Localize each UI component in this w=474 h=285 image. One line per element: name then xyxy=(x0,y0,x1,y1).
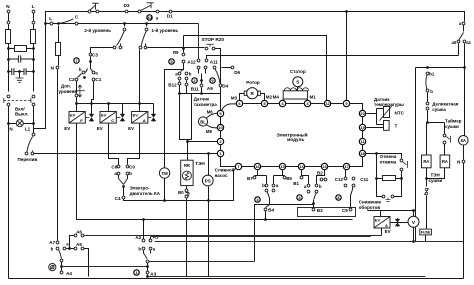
junction B4 bus xyxy=(264,218,267,221)
terminal C3 xyxy=(89,53,92,56)
terminal B7 xyxy=(253,176,256,179)
svg-text:18: 18 xyxy=(360,151,365,156)
svg-text:A1: A1 xyxy=(153,235,159,240)
mechanical link dashed xyxy=(4,99,32,101)
contact group 8 xyxy=(336,195,341,200)
wire 16 hanger xyxy=(255,170,267,184)
terminal C11 pin2 xyxy=(352,184,355,187)
svg-text:N: N xyxy=(457,159,460,164)
svg-text:сушки: сушки xyxy=(445,124,459,129)
terminal C9 xyxy=(349,208,352,211)
taymer actuator xyxy=(446,136,450,143)
wire A5 right down xyxy=(84,249,89,277)
wire fuse to bus xyxy=(413,235,426,242)
terminal C1 xyxy=(92,78,95,81)
junction level1 xyxy=(145,22,148,25)
terminal A4 xyxy=(60,271,63,274)
node 10 xyxy=(217,124,223,130)
node 16 xyxy=(254,163,260,169)
wire N to lamp row xyxy=(8,106,10,124)
terminal A2 xyxy=(142,239,145,242)
junction capY left xyxy=(7,70,10,73)
resistor snizhenie xyxy=(383,176,396,181)
wire 9-10 xyxy=(220,117,222,126)
wire A9 col upper xyxy=(201,74,203,80)
wire A4 to A3 xyxy=(62,266,148,268)
svg-text:19: 19 xyxy=(360,125,365,130)
wire 15 hanger xyxy=(274,170,285,184)
wire overflow to node1 xyxy=(34,153,218,155)
tick a A1 xyxy=(150,251,152,254)
terminal dop b xyxy=(82,71,85,74)
junction A3 xyxy=(146,265,149,268)
terminal a1 xyxy=(463,40,466,43)
svg-text:10: 10 xyxy=(218,125,223,130)
wire bus to EV C xyxy=(108,104,110,112)
wire A1 join xyxy=(370,236,372,237)
svg-text:A2: A2 xyxy=(135,235,141,240)
wire 16-15 xyxy=(261,166,280,168)
wire pump return down xyxy=(208,201,210,277)
svg-text:b: b xyxy=(79,67,82,72)
wire A12 column upper xyxy=(183,36,185,53)
wire EVC to C6 xyxy=(109,124,119,165)
svg-text:b: b xyxy=(319,184,322,189)
svg-text:b: b xyxy=(189,71,192,76)
terminal C12 pin2 xyxy=(344,184,347,187)
junction A2 feed xyxy=(142,218,145,221)
svg-text:B12: B12 xyxy=(168,83,177,88)
wire L drop b xyxy=(33,25,35,30)
node 5 xyxy=(261,100,267,106)
wire L1 down xyxy=(33,106,35,134)
svg-text:A: A xyxy=(385,223,388,228)
junction A9 col xyxy=(200,79,203,82)
tick overflow no xyxy=(32,151,34,152)
wire left frame to L1 xyxy=(34,24,46,129)
wire KA column xyxy=(57,70,59,241)
wire resistor right xyxy=(396,178,402,180)
svg-text:A4: A4 xyxy=(66,271,72,276)
lever C2 up xyxy=(78,74,82,78)
switch lever main xyxy=(141,6,151,11)
wire 6-5 xyxy=(244,103,262,105)
terminal B2 pin2 xyxy=(324,178,327,181)
junction EV3 xyxy=(138,102,141,105)
terminal ka a xyxy=(117,172,120,175)
wire lamp left xyxy=(9,123,17,125)
svg-text:13: 13 xyxy=(322,164,327,169)
junction lamp left xyxy=(7,122,10,125)
svg-text:Датчик: Датчик xyxy=(194,97,210,102)
svg-text:A3: A3 xyxy=(150,271,156,276)
svg-text:a1: a1 xyxy=(466,40,471,45)
junction pump return xyxy=(207,199,210,202)
wire to RA1 xyxy=(426,123,428,156)
junction filter left xyxy=(7,47,10,50)
wire resistor left xyxy=(377,178,383,180)
wire taymer drop xyxy=(444,123,446,134)
solenoid valve EV F xyxy=(69,112,85,124)
bus return mid xyxy=(149,276,426,278)
wire bus to pin mid xyxy=(198,24,200,59)
wire level1a to EV bus xyxy=(139,50,141,104)
stator S xyxy=(293,77,303,87)
wire filter left rail xyxy=(8,44,10,92)
terminal C6 xyxy=(117,165,120,168)
terminal A2 b xyxy=(142,247,145,250)
junction block left xyxy=(178,92,181,95)
junction A3 bus xyxy=(146,275,149,278)
terminal b xyxy=(426,89,429,92)
terminal door sw right xyxy=(96,10,99,13)
connector pin N xyxy=(7,21,10,24)
wire C1 to valve xyxy=(92,81,94,104)
junction block mid xyxy=(200,92,203,95)
wire A3u right xyxy=(149,261,255,263)
wire A9 down xyxy=(201,88,203,94)
svg-text:14: 14 xyxy=(299,164,304,169)
svg-text:BL: BL xyxy=(200,119,206,124)
svg-text:a0: a0 xyxy=(452,40,457,45)
wire S to winding xyxy=(297,87,299,91)
switch STOP R20 xyxy=(202,37,225,47)
svg-text:отжима: отжима xyxy=(380,160,397,165)
svg-text:2-й уровень: 2-й уровень xyxy=(84,27,111,33)
connector D3 pin a xyxy=(125,10,128,13)
svg-text:EV: EV xyxy=(70,113,76,118)
svg-text:RR: RR xyxy=(184,163,190,168)
wire stator to 3 xyxy=(307,100,309,101)
node 9 right xyxy=(343,100,349,106)
svg-text:b: b xyxy=(430,89,433,94)
terminal D6 xyxy=(231,66,234,69)
wire level2a to C3 xyxy=(91,48,114,54)
terminal stop left xyxy=(205,47,208,50)
svg-text:b: b xyxy=(129,171,132,176)
svg-text:STOP R20: STOP R20 xyxy=(202,37,225,42)
svg-text:PS: PS xyxy=(205,179,211,184)
contact group 4 xyxy=(297,195,302,200)
wire 10-2 xyxy=(220,131,222,139)
wire to A2 xyxy=(143,220,145,240)
junction capX left xyxy=(7,58,10,61)
wire to node 12 xyxy=(184,36,327,102)
svg-text:L: L xyxy=(49,16,52,21)
stub A9 up xyxy=(201,82,203,85)
svg-text:15: 15 xyxy=(280,164,285,169)
node 20 xyxy=(359,110,365,116)
resistor KA feed xyxy=(56,43,61,56)
wire A1 stub xyxy=(150,237,152,240)
stub A3 to bus xyxy=(147,275,149,277)
connector A12 pin b xyxy=(182,60,185,63)
wire to C4 xyxy=(123,187,125,196)
terminal delikat top xyxy=(426,102,429,105)
wire C2 to EV bus xyxy=(76,97,78,104)
wire to cutout xyxy=(426,179,428,187)
lever level2 curve xyxy=(117,31,125,45)
resistor RA 2 xyxy=(440,155,450,168)
terminal row2 p3 xyxy=(213,66,216,69)
node 9 xyxy=(217,110,223,116)
svg-text:b: b xyxy=(138,247,141,252)
junction L frame xyxy=(44,22,47,25)
terminal a pin1 xyxy=(178,72,181,75)
connector D3 pin b xyxy=(138,10,141,13)
svg-text:C9: C9 xyxy=(342,208,348,213)
wire N drop a xyxy=(8,13,10,22)
wire sensor bracket xyxy=(377,109,384,125)
node 4 xyxy=(279,100,285,106)
svg-text:EV: EV xyxy=(133,113,139,118)
terminal N input xyxy=(7,10,10,13)
tail ka b xyxy=(127,175,129,179)
terminal otmena top xyxy=(400,159,403,162)
wire resistor to N pin xyxy=(58,56,60,66)
valve symbol C xyxy=(117,113,125,121)
junction filter right xyxy=(32,47,35,50)
terminal taymer top xyxy=(443,134,446,137)
resistor RA 1 xyxy=(422,155,432,168)
wire 9 to 20 xyxy=(350,104,363,111)
svg-text:Электро-: Электро- xyxy=(130,186,150,191)
terminal A1 a xyxy=(149,247,152,250)
capacitor Y right xyxy=(20,68,34,75)
svg-text:A5: A5 xyxy=(76,242,82,247)
wire BL to 10 xyxy=(206,125,217,128)
terminal A9 xyxy=(200,84,203,87)
terminal B4 xyxy=(264,208,267,211)
junction C3 xyxy=(89,60,92,63)
junction resistor left xyxy=(375,177,378,180)
terminal b13 xyxy=(315,184,318,187)
wire 9 to module bus xyxy=(222,104,237,111)
terminal switch R bottom xyxy=(32,103,35,106)
svg-text:L1: L1 xyxy=(25,127,31,132)
contact group 7 xyxy=(74,58,79,63)
node 3 xyxy=(304,100,310,106)
wire L drop a xyxy=(33,13,35,22)
svg-text:A9: A9 xyxy=(207,86,213,91)
wire to D6 xyxy=(222,67,232,69)
wire 18 branch xyxy=(366,154,402,159)
switch lever C xyxy=(60,19,73,23)
svg-text:A7: A7 xyxy=(49,240,55,245)
terminal a0 xyxy=(457,40,460,43)
wire V down xyxy=(413,228,415,242)
wire N drop b xyxy=(8,25,10,30)
inductor filter right xyxy=(31,30,36,44)
svg-text:C: C xyxy=(111,118,114,123)
wire heater return xyxy=(186,199,188,277)
junction level2 xyxy=(123,22,126,25)
svg-text:Перелив: Перелив xyxy=(18,157,38,162)
buzzer symbol xyxy=(49,264,56,271)
terminal b pin2 xyxy=(185,77,188,80)
lever ka b xyxy=(124,179,128,185)
ground snizhenie xyxy=(385,198,390,202)
svg-text:Доп.: Доп. xyxy=(61,84,71,89)
svg-text:b: b xyxy=(262,183,265,188)
wire to C9 xyxy=(350,196,352,208)
terminal b13 pin2 xyxy=(315,190,318,193)
terminal switch L bottom xyxy=(7,103,10,106)
terminal overflow common xyxy=(32,133,35,136)
terminal taymer bottom xyxy=(443,141,446,144)
contact group 1 xyxy=(134,270,139,275)
junction delikat col xyxy=(426,121,429,124)
terminal sw main out xyxy=(156,10,159,13)
terminal switch R top xyxy=(32,95,35,98)
svg-text:C1: C1 xyxy=(95,77,101,82)
heater RR TEN xyxy=(181,160,193,185)
wire b down xyxy=(427,93,429,102)
wire 5-4 xyxy=(268,103,280,105)
lever ka a xyxy=(119,179,124,185)
junction a bottom xyxy=(68,247,71,250)
svg-text:уровень: уровень xyxy=(59,89,78,94)
wire stator to 4 xyxy=(283,100,284,101)
svg-text:D4: D4 xyxy=(222,84,228,89)
svg-text:сушка: сушка xyxy=(432,107,446,112)
terminal level2 common xyxy=(123,28,126,31)
terminal B12 xyxy=(178,82,181,85)
switch bar main xyxy=(147,3,154,8)
tail row2 p2 xyxy=(205,69,207,74)
lever b8 xyxy=(350,187,353,196)
svg-text:B3: B3 xyxy=(317,208,323,213)
svg-text:EV: EV xyxy=(128,126,134,131)
connector A12 pin a xyxy=(182,53,185,56)
wire lamp right xyxy=(24,123,34,125)
solenoid valve EV A xyxy=(132,112,148,124)
svg-text:EV: EV xyxy=(64,126,70,131)
svg-text:Ротор: Ротор xyxy=(246,80,260,85)
svg-text:C2: C2 xyxy=(69,77,75,82)
junction capY right xyxy=(32,70,35,73)
terminal otmena bottom xyxy=(400,168,403,171)
wire rotor to 5 xyxy=(261,94,265,101)
wire D4 down xyxy=(220,87,222,94)
wire C4 bus to node7 xyxy=(124,169,236,201)
svg-text:C3: C3 xyxy=(92,53,98,58)
svg-text:B4: B4 xyxy=(268,208,274,213)
junction A12 top xyxy=(182,47,185,50)
node 7 xyxy=(235,163,241,169)
terminal level2 b xyxy=(119,46,122,49)
wire valve F up xyxy=(91,104,93,114)
svg-text:B1: B1 xyxy=(293,181,299,186)
wire sn left xyxy=(377,179,383,197)
junction valve1 xyxy=(90,102,93,105)
thermal cutout drying xyxy=(424,188,429,194)
wire 14-13 xyxy=(305,166,322,168)
tail ka a xyxy=(118,175,120,179)
wire N right rail xyxy=(463,163,465,279)
wire cutout down xyxy=(426,196,428,230)
voltmeter V xyxy=(408,216,419,227)
svg-text:b: b xyxy=(51,247,54,252)
terminal ka b xyxy=(126,172,129,175)
wire taymer to RA2 xyxy=(444,144,446,156)
capacitor X across line xyxy=(8,55,33,62)
lever row2 to D4 xyxy=(215,69,220,84)
terminal a C1 xyxy=(92,71,95,74)
wire V up xyxy=(413,211,415,217)
svg-text:ТМ: ТМ xyxy=(161,171,168,176)
terminal D4 xyxy=(219,84,222,87)
tach sensor BL xyxy=(198,117,207,126)
switch overflow lever xyxy=(27,136,33,152)
terminal A4 upper xyxy=(60,259,63,262)
svg-text:B2: B2 xyxy=(317,170,323,175)
connector A11 pin xyxy=(205,59,208,62)
svg-text:FUSE: FUSE xyxy=(421,231,431,235)
wire level1 to stop xyxy=(148,47,205,49)
terminal delikat bottom xyxy=(426,107,429,110)
svg-text:Сливной: Сливной xyxy=(215,166,235,172)
wire stop to tach column xyxy=(215,49,221,111)
junction resistor branch xyxy=(57,22,60,25)
wire right rail to KA xyxy=(464,68,466,137)
svg-text:ТЭН: ТЭН xyxy=(195,161,205,166)
wire rotor to 6 xyxy=(240,94,245,101)
svg-text:EV: EV xyxy=(375,218,381,223)
svg-text:RA: RA xyxy=(442,159,448,164)
junction top to node9 xyxy=(345,10,348,13)
wire drying bus xyxy=(416,67,465,69)
svg-text:A11: A11 xyxy=(210,59,219,64)
wire 15-14 xyxy=(286,166,299,168)
junction V xyxy=(412,240,415,243)
svg-text:1-й уровень: 1-й уровень xyxy=(152,27,179,33)
junction right rail xyxy=(463,66,466,69)
connector D1 xyxy=(169,10,172,13)
svg-text:T: T xyxy=(395,124,398,129)
svg-text:D3: D3 xyxy=(124,3,130,8)
junction lamp right xyxy=(32,122,35,125)
svg-text:тахометра: тахометра xyxy=(194,102,218,107)
svg-text:17: 17 xyxy=(344,164,349,169)
node 11 xyxy=(359,138,365,144)
terminal C2 xyxy=(75,78,78,81)
svg-text:C11: C11 xyxy=(360,177,369,182)
wire C3 down xyxy=(90,57,92,62)
junction V feed xyxy=(412,209,415,212)
node 12 xyxy=(324,100,330,106)
terminal B2 pin1 xyxy=(320,178,323,181)
wire BL to 9 xyxy=(206,113,217,118)
contact group 2 xyxy=(192,78,197,83)
wire 20 to bracket xyxy=(367,113,377,115)
wire a1 down xyxy=(464,44,466,68)
svg-text:B0: B0 xyxy=(178,190,184,195)
junction heater bus xyxy=(186,140,189,143)
svg-text:B7: B7 xyxy=(247,176,253,181)
wire to node 2 xyxy=(188,141,218,143)
solenoid valve EV C xyxy=(100,112,116,124)
wire group3 box xyxy=(255,205,314,262)
junction resistor right xyxy=(400,177,403,180)
wire to B3 xyxy=(313,200,315,203)
wire 20-19 xyxy=(362,117,364,125)
svg-text:Снижение: Снижение xyxy=(359,200,382,205)
svg-text:10: 10 xyxy=(147,15,152,20)
svg-text:EV: EV xyxy=(385,229,391,234)
wire C2 down xyxy=(76,81,78,94)
wire to pump xyxy=(208,154,210,176)
